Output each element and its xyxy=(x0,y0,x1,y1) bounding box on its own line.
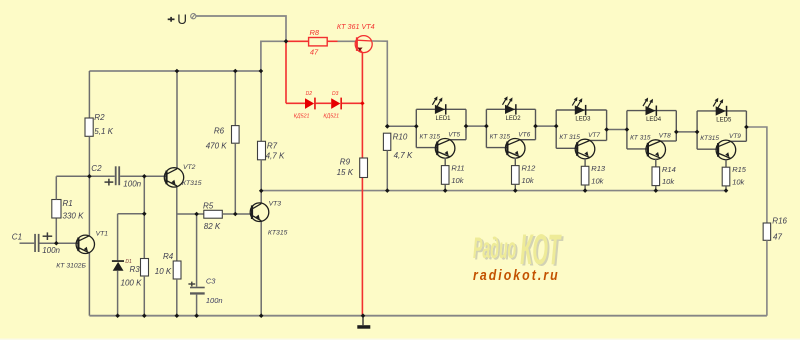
svg-text:LED5: LED5 xyxy=(716,117,732,123)
svg-text:VT9: VT9 xyxy=(729,133,741,140)
svg-text:U: U xyxy=(177,12,187,27)
svg-text:КТ 315: КТ 315 xyxy=(420,133,441,140)
svg-text:R7: R7 xyxy=(267,141,278,150)
svg-text:VT8: VT8 xyxy=(659,133,671,140)
svg-text:R16: R16 xyxy=(772,217,787,226)
svg-text:100n: 100n xyxy=(123,180,141,189)
svg-text:330 K: 330 K xyxy=(63,211,85,220)
svg-text:R10: R10 xyxy=(393,132,408,141)
svg-text:R15: R15 xyxy=(732,165,747,174)
svg-text:R12: R12 xyxy=(522,164,537,173)
svg-text:R1: R1 xyxy=(63,199,73,208)
svg-text:VT3: VT3 xyxy=(269,200,282,207)
svg-text:КТ315: КТ315 xyxy=(700,135,719,142)
svg-text:10k: 10k xyxy=(591,177,604,186)
svg-text:radiokot.ru: radiokot.ru xyxy=(473,267,560,283)
svg-text:10k: 10k xyxy=(662,177,675,186)
svg-text:R2: R2 xyxy=(94,113,105,122)
svg-text:R3: R3 xyxy=(130,265,141,274)
svg-text:VT5: VT5 xyxy=(448,131,460,138)
svg-text:47: 47 xyxy=(310,48,319,57)
svg-text:R8: R8 xyxy=(310,28,320,37)
svg-text:КТ 3102Б: КТ 3102Б xyxy=(56,263,86,270)
svg-text:D2: D2 xyxy=(306,91,313,97)
svg-text:КД521: КД521 xyxy=(294,114,310,120)
svg-text:R14: R14 xyxy=(662,165,676,174)
svg-text:КТ315: КТ315 xyxy=(182,180,202,187)
svg-text:47: 47 xyxy=(773,232,782,241)
svg-text:R4: R4 xyxy=(163,252,174,261)
svg-text:R13: R13 xyxy=(591,164,606,173)
svg-text:LED4: LED4 xyxy=(646,117,662,123)
svg-text:10k: 10k xyxy=(451,176,464,185)
svg-text:R6: R6 xyxy=(214,126,225,135)
svg-text:КТ 315: КТ 315 xyxy=(490,133,511,140)
svg-text:10 K: 10 K xyxy=(155,267,172,276)
svg-text:КТ315: КТ315 xyxy=(268,230,288,237)
svg-text:VT2: VT2 xyxy=(183,164,196,171)
svg-text:КТ 315: КТ 315 xyxy=(559,134,580,141)
svg-text:5,1 K: 5,1 K xyxy=(94,127,113,136)
svg-text:VT1: VT1 xyxy=(96,230,109,237)
svg-text:VT6: VT6 xyxy=(518,131,530,138)
svg-text:VT7: VT7 xyxy=(588,132,600,139)
svg-text:КД521: КД521 xyxy=(323,114,339,120)
svg-text:100 K: 100 K xyxy=(121,279,143,288)
svg-text:C1: C1 xyxy=(12,232,22,241)
svg-text:15 K: 15 K xyxy=(337,168,354,177)
svg-text:R11: R11 xyxy=(451,164,464,173)
svg-text:4,7 K: 4,7 K xyxy=(266,152,285,161)
svg-text:10k: 10k xyxy=(522,176,535,185)
svg-text:R5: R5 xyxy=(203,201,214,210)
svg-text:КТ 361 VT4: КТ 361 VT4 xyxy=(337,22,375,31)
svg-text:LED3: LED3 xyxy=(575,117,591,123)
svg-text:10k: 10k xyxy=(732,177,745,186)
svg-text:470 K: 470 K xyxy=(206,141,228,150)
svg-text:КТ 315: КТ 315 xyxy=(630,135,651,142)
svg-text:C3: C3 xyxy=(206,276,216,285)
svg-text:D3: D3 xyxy=(332,91,339,97)
svg-text:C2: C2 xyxy=(91,164,102,173)
svg-text:100n: 100n xyxy=(42,246,60,255)
svg-text:82 K: 82 K xyxy=(204,222,221,231)
svg-text:4,7 K: 4,7 K xyxy=(394,151,413,160)
svg-text:LED2: LED2 xyxy=(506,116,522,122)
svg-text:LED1: LED1 xyxy=(436,116,452,122)
svg-text:100n: 100n xyxy=(206,296,223,305)
svg-text:R9: R9 xyxy=(340,157,351,166)
